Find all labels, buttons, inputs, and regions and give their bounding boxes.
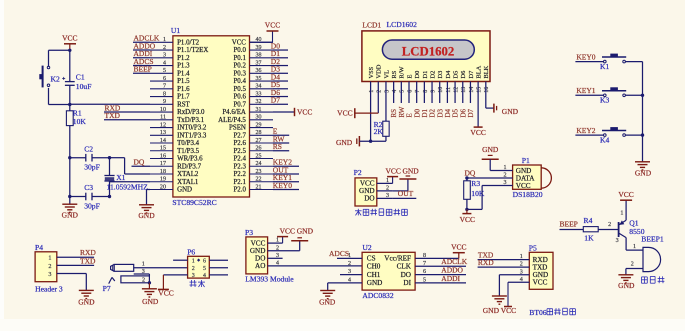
power VCC above P2 pin 1 xyxy=(385,167,400,184)
svg-text:D0: D0 xyxy=(414,71,421,79)
wire Q1 emitter to VCC xyxy=(620,200,626,220)
svg-text:BEEP1: BEEP1 xyxy=(641,234,664,243)
svg-text:DO: DO xyxy=(401,271,411,279)
svg-text:VCC: VCC xyxy=(62,34,77,43)
wire P6 pin 5 stub xyxy=(209,267,228,269)
wire net RW to U1 pin 27 xyxy=(273,134,289,143)
svg-text:3: 3 xyxy=(48,271,51,278)
svg-text:P0.1: P0.1 xyxy=(233,55,246,62)
svg-text:P1.2: P1.2 xyxy=(177,55,190,62)
svg-text:BEEP: BEEP xyxy=(134,65,152,74)
capacitor C2 30pF xyxy=(70,144,110,171)
svg-text:XTAL2: XTAL2 xyxy=(177,171,199,178)
power VCC above P3 pin 1 xyxy=(277,227,295,244)
svg-text:1: 1 xyxy=(620,211,623,217)
svg-text:LCD1602: LCD1602 xyxy=(402,44,455,58)
wire net RXD to P4 pin 1 xyxy=(57,248,97,257)
node LCD VSS ground junction xyxy=(369,140,372,143)
svg-text:BEEP: BEEP xyxy=(560,219,578,228)
wire net KEY0 xyxy=(575,52,603,61)
svg-text:D4: D4 xyxy=(445,70,452,79)
svg-text:STC89C52RC: STC89C52RC xyxy=(172,198,216,207)
svg-text:Header 3: Header 3 xyxy=(35,284,63,293)
svg-text:U2: U2 xyxy=(362,243,371,252)
svg-text:AO: AO xyxy=(255,262,265,270)
svg-text:30: 30 xyxy=(256,115,262,121)
connector P6 switch xyxy=(187,248,209,280)
wire net ADDO to U1 pin 2 xyxy=(133,41,156,50)
connector P3 LM393 module xyxy=(245,228,294,283)
svg-text:VCC: VCC xyxy=(470,128,485,137)
connector P7 sleeve contact xyxy=(121,274,149,284)
svg-text:RD/P3.7: RD/P3.7 xyxy=(177,163,201,170)
node KEY2 rail junction xyxy=(641,133,644,136)
svg-text:13: 13 xyxy=(461,87,467,93)
node DQ R3 junction xyxy=(465,176,468,179)
svg-text:2: 2 xyxy=(377,90,383,93)
wire net D0 at LCD pin 7 xyxy=(413,82,421,118)
wire net D5 at LCD pin 12 xyxy=(452,82,460,118)
svg-text:P1: P1 xyxy=(522,156,530,165)
svg-text:P1.3: P1.3 xyxy=(177,63,190,70)
ground below buzzer xyxy=(618,275,635,290)
svg-text:GND: GND xyxy=(618,281,635,290)
svg-text:1: 1 xyxy=(192,259,195,265)
buzzer BEEP1 xyxy=(641,234,664,271)
node RST junction xyxy=(68,103,71,106)
svg-text:DQ: DQ xyxy=(465,169,476,178)
wire K3 to ground rail xyxy=(626,94,643,96)
svg-text:KEY2: KEY2 xyxy=(576,126,595,135)
svg-text:D1: D1 xyxy=(422,71,429,79)
svg-text:TXD: TXD xyxy=(80,256,96,265)
svg-text:T1/P3.5: T1/P3.5 xyxy=(177,148,200,155)
svg-text:K1: K1 xyxy=(600,62,609,71)
svg-text:2: 2 xyxy=(192,266,195,272)
svg-text:P1.5: P1.5 xyxy=(177,78,190,85)
caption flame sensor module xyxy=(355,209,407,216)
svg-text:GND: GND xyxy=(138,211,155,220)
ground at P3 pin 2 xyxy=(268,227,314,251)
wire net KEY0 to U1 pin 21 xyxy=(273,181,299,190)
svg-text:TXD: TXD xyxy=(105,111,121,120)
wire LCD pin 3 VL to R2 xyxy=(385,82,387,122)
svg-text:2: 2 xyxy=(48,263,51,270)
power VCC left of LCD xyxy=(337,108,378,118)
svg-text:R4: R4 xyxy=(584,216,593,225)
wire net ADCS to U1 pin 4 xyxy=(133,57,154,66)
wire net D5 to U1 pin 34 xyxy=(271,80,288,89)
svg-text:30pF: 30pF xyxy=(84,162,100,171)
ground below R1 xyxy=(62,204,79,219)
svg-text:VCC: VCC xyxy=(516,182,531,190)
svg-text:WR/P3.6: WR/P3.6 xyxy=(177,156,203,163)
svg-text:C1: C1 xyxy=(76,72,85,81)
wire net D1 to U1 pin 38 xyxy=(271,49,288,58)
svg-text:GND: GND xyxy=(482,145,499,154)
wire net BEEP xyxy=(560,219,584,229)
svg-text:CH1: CH1 xyxy=(367,271,381,279)
wire P7 pin 3 switch xyxy=(134,269,150,275)
svg-text:17: 17 xyxy=(160,161,166,167)
svg-text:PSEN: PSEN xyxy=(229,125,246,132)
svg-text:1K: 1K xyxy=(584,233,594,242)
svg-text:KEY1: KEY1 xyxy=(576,86,595,95)
svg-text:R3: R3 xyxy=(471,179,480,188)
svg-text:P5: P5 xyxy=(529,243,537,252)
wire P6 pin 6 stub xyxy=(209,259,228,261)
svg-text:P1.6: P1.6 xyxy=(177,86,190,93)
svg-text:LM393 Module: LM393 Module xyxy=(245,275,294,284)
svg-text:16: 16 xyxy=(160,153,166,159)
svg-text:22: 22 xyxy=(256,177,262,183)
svg-text:4: 4 xyxy=(203,273,206,279)
svg-text:5: 5 xyxy=(163,68,166,74)
svg-text:P2.0: P2.0 xyxy=(233,187,246,194)
wire U2 pin 3 stub xyxy=(340,274,362,276)
wire net RXD to U1 pin 10 xyxy=(104,103,150,112)
LCD module LCD1 LCD1602 xyxy=(362,20,490,93)
svg-text:12: 12 xyxy=(160,122,166,128)
wire net D2 at LCD pin 9 xyxy=(429,82,437,118)
svg-text:BLA: BLA xyxy=(476,65,483,78)
svg-text:P4.6/EA: P4.6/EA xyxy=(222,109,246,116)
svg-text:GND: GND xyxy=(483,306,500,315)
wire net D3 at LCD pin 10 xyxy=(436,82,444,118)
svg-text:KEY0: KEY0 xyxy=(576,52,595,61)
svg-text:R/W: R/W xyxy=(399,65,406,78)
caption switch xyxy=(190,280,206,287)
svg-text:ADC0832: ADC0832 xyxy=(362,291,393,300)
wire net D7 at LCD pin 14 xyxy=(467,82,475,118)
svg-text:P0.7: P0.7 xyxy=(233,101,246,108)
node P7 sleeve junction xyxy=(148,281,151,284)
svg-text:36: 36 xyxy=(256,68,262,74)
svg-text:P1.7: P1.7 xyxy=(177,94,190,101)
svg-text:GND: GND xyxy=(297,227,314,236)
svg-text:RST: RST xyxy=(177,101,190,108)
svg-text:GND: GND xyxy=(62,211,79,220)
svg-text:OUT: OUT xyxy=(398,189,414,198)
node VCC junction xyxy=(68,49,71,52)
wire K1 to ground rail xyxy=(626,61,643,63)
svg-text:XTAL1: XTAL1 xyxy=(177,179,199,186)
wire P6 pin 4 stub xyxy=(209,274,228,276)
wire net KEY1 xyxy=(575,86,603,95)
wire K2 to RST node xyxy=(49,88,70,105)
svg-text:VCC: VCC xyxy=(618,190,633,199)
svg-text:10: 10 xyxy=(438,87,444,93)
ground below U2 pin 4 xyxy=(319,291,336,307)
pushbutton K1 xyxy=(600,54,626,71)
power VCC above Q1 xyxy=(618,190,633,200)
wire P6 pin 1 stub xyxy=(173,259,188,261)
wire R4 to Q1 base xyxy=(598,222,618,230)
svg-text:7: 7 xyxy=(415,90,421,93)
svg-text:ADCS: ADCS xyxy=(329,249,349,258)
svg-text:31: 31 xyxy=(256,107,262,113)
svg-text:RS: RS xyxy=(391,70,398,78)
wire net BEEP to U1 pin 5 xyxy=(133,65,152,74)
wire net D0 to U1 pin 39 xyxy=(271,41,288,50)
wire U2 pin 4 to ground xyxy=(328,283,362,291)
svg-text:VCC: VCC xyxy=(280,227,295,236)
svg-text:15: 15 xyxy=(160,146,166,152)
svg-text:1: 1 xyxy=(142,261,145,267)
wire net RXD to P5 pin 2 xyxy=(478,258,530,267)
svg-text:21: 21 xyxy=(256,184,262,190)
node KEY1 rail junction xyxy=(641,94,644,97)
svg-text:BLK: BLK xyxy=(483,65,490,78)
svg-text:12: 12 xyxy=(453,87,459,93)
svg-text:VCC: VCC xyxy=(297,107,312,116)
wire RST net to U1 pin 9 xyxy=(70,103,150,105)
svg-text:DI: DI xyxy=(403,279,411,287)
wire net TXD to P4 pin 2 xyxy=(57,256,96,265)
wire net ADCS to U2 pin 1 xyxy=(329,249,362,258)
svg-text:P7: P7 xyxy=(103,284,111,293)
wire crystal bottom to XTAL1 pin 19 xyxy=(110,181,151,183)
svg-text:30pF: 30pF xyxy=(84,202,100,211)
svg-text:CH0: CH0 xyxy=(367,263,381,271)
power VCC below LCD pin 15 BLA xyxy=(470,82,485,137)
svg-text:TxD/P3.1: TxD/P3.1 xyxy=(177,117,205,124)
svg-text:P0.6: P0.6 xyxy=(233,94,246,101)
wire net D4 at LCD pin 11 xyxy=(444,82,452,118)
wire U1 pin 20 to ground xyxy=(147,189,151,204)
svg-text:3: 3 xyxy=(163,53,166,59)
svg-text:2: 2 xyxy=(142,278,145,284)
transistor Q1 8550 xyxy=(619,219,645,238)
wire VCC node to K2 xyxy=(49,50,70,67)
wire keys ground rail xyxy=(642,62,644,162)
connector P1 DS18B20 xyxy=(503,156,551,199)
wire net ADCLK to U1 pin 1 xyxy=(133,34,160,43)
svg-text:15: 15 xyxy=(477,87,483,93)
svg-text:8: 8 xyxy=(423,90,429,93)
svg-text:ALE/P4.5: ALE/P4.5 xyxy=(218,117,246,124)
svg-text:2: 2 xyxy=(163,45,166,51)
crystal X1 11.0592MHZ xyxy=(104,158,148,197)
svg-text:DO: DO xyxy=(364,195,374,203)
wire net ADDI at U2 pin 5 xyxy=(415,274,466,283)
wire net E at LCD pin 6 xyxy=(406,82,414,118)
caption bluetooth module xyxy=(547,308,575,315)
wire net ADDO at U2 pin 6 xyxy=(415,266,466,275)
svg-text:24: 24 xyxy=(256,161,262,167)
wire net E to U1 pin 28 xyxy=(273,127,289,136)
wire net KEY1 to U1 pin 22 xyxy=(273,173,299,182)
svg-text:BT06: BT06 xyxy=(529,308,547,317)
svg-text:3: 3 xyxy=(142,269,145,275)
svg-text:2: 2 xyxy=(631,262,634,268)
wire net TXD to P5 pin 1 xyxy=(478,250,530,259)
svg-text:GND: GND xyxy=(336,138,353,147)
ground right of LCD pin 16 BLK xyxy=(486,82,519,117)
svg-text:RXD: RXD xyxy=(478,258,494,267)
svg-text:D2: D2 xyxy=(429,71,436,79)
wire net D2 to U1 pin 37 xyxy=(271,57,288,66)
wire net RS at LCD pin 4 xyxy=(390,82,398,118)
svg-text:K2: K2 xyxy=(51,74,60,83)
power VCC below P6 pin 3 xyxy=(158,275,174,298)
svg-text:RS: RS xyxy=(273,142,282,151)
svg-text:5: 5 xyxy=(400,90,406,93)
wire net KEY2 xyxy=(575,126,603,135)
power VCC above reset circuit xyxy=(62,34,77,51)
svg-text:P1.1/T2EX: P1.1/T2EX xyxy=(177,47,208,54)
svg-text:D5: D5 xyxy=(452,71,459,79)
svg-text:K4: K4 xyxy=(600,136,609,145)
svg-text:4: 4 xyxy=(392,90,398,93)
svg-text:P0.3: P0.3 xyxy=(233,70,246,77)
adc U2 ADC0832 xyxy=(348,243,426,300)
svg-text:19: 19 xyxy=(160,177,166,183)
svg-text:Vcc/REF: Vcc/REF xyxy=(384,255,411,263)
svg-text:P0.4: P0.4 xyxy=(233,78,246,85)
svg-text:11.0592MHZ: 11.0592MHZ xyxy=(107,182,149,191)
resistor R3 10K xyxy=(464,178,485,209)
svg-text:P2: P2 xyxy=(354,168,362,177)
svg-text:4: 4 xyxy=(163,60,166,66)
svg-text:VCC: VCC xyxy=(460,215,475,224)
svg-text:GND: GND xyxy=(367,279,383,287)
svg-text:32: 32 xyxy=(256,99,262,105)
wire net D3 to U1 pin 36 xyxy=(271,65,288,74)
svg-text:9: 9 xyxy=(430,90,436,93)
node crystal top xyxy=(108,156,111,159)
wire net RW at LCD pin 5 xyxy=(398,82,406,118)
svg-text:P2.3: P2.3 xyxy=(233,163,246,170)
wire P7 pin 1 tip to P6 pin 2 xyxy=(134,261,188,267)
svg-text:D7: D7 xyxy=(468,70,475,79)
svg-text:37: 37 xyxy=(256,60,262,66)
svg-text:11: 11 xyxy=(160,115,166,121)
wire net D6 at LCD pin 13 xyxy=(459,82,467,118)
svg-text:P1.0/T2: P1.0/T2 xyxy=(177,40,200,47)
svg-text:VCC: VCC xyxy=(533,279,548,287)
svg-text:VCC: VCC xyxy=(337,109,352,118)
svg-text:P2.5: P2.5 xyxy=(233,148,246,155)
wire net D6 to U1 pin 33 xyxy=(271,88,288,97)
svg-text:8: 8 xyxy=(163,91,166,97)
svg-text:10K: 10K xyxy=(471,189,485,198)
node R3 VCC junction xyxy=(465,208,468,211)
wire net OUT to U1 pin 23 xyxy=(273,165,299,174)
svg-text:DS18B20: DS18B20 xyxy=(513,190,543,199)
svg-text:6: 6 xyxy=(407,90,413,93)
wire K4 to ground rail xyxy=(626,134,643,136)
svg-text:INT0/P3.2: INT0/P3.2 xyxy=(177,125,207,132)
svg-text:10: 10 xyxy=(160,107,166,113)
connector P2 flame sensor module xyxy=(354,168,393,206)
svg-text:R1: R1 xyxy=(73,108,82,117)
pushbutton K3 xyxy=(600,87,626,104)
svg-text:VCC: VCC xyxy=(232,40,247,47)
wire P4 pin 3 to ground xyxy=(57,274,87,291)
svg-text:3: 3 xyxy=(384,90,390,93)
wire net RS to U1 pin 26 xyxy=(273,142,289,151)
svg-text:C3: C3 xyxy=(84,183,93,192)
connector P4 Header 3 xyxy=(35,243,63,293)
svg-text:KEY0: KEY0 xyxy=(273,181,292,190)
svg-text:5: 5 xyxy=(203,266,206,272)
svg-text:10uF: 10uF xyxy=(76,82,92,91)
svg-text:38: 38 xyxy=(256,53,262,59)
svg-text:VCC: VCC xyxy=(265,21,280,30)
svg-text:INT1/P3.3: INT1/P3.3 xyxy=(177,132,207,139)
svg-text:14: 14 xyxy=(160,138,166,144)
pushbutton K4 xyxy=(600,127,626,144)
power VCC below R3 xyxy=(460,209,475,223)
wire net DQ to P1 pin 2 DATA xyxy=(465,169,513,178)
svg-text:6: 6 xyxy=(163,76,166,82)
svg-text:29: 29 xyxy=(256,122,262,128)
svg-text:VCC: VCC xyxy=(158,289,173,298)
svg-text:26: 26 xyxy=(256,146,262,152)
capacitor C3 30pF xyxy=(70,183,110,210)
svg-text:2: 2 xyxy=(348,261,351,267)
svg-text:P1.4: P1.4 xyxy=(177,70,190,77)
svg-text:27: 27 xyxy=(256,138,262,144)
svg-text:LCD1: LCD1 xyxy=(362,21,381,30)
svg-text:1: 1 xyxy=(633,244,636,250)
svg-text:CS: CS xyxy=(367,255,376,263)
resistor R2 2K xyxy=(374,120,390,141)
ground below P7 xyxy=(142,289,159,306)
svg-text:2K: 2K xyxy=(374,127,384,136)
wire net OUT at P2 pin 3 xyxy=(393,189,417,198)
resistor R4 1K xyxy=(583,216,598,242)
ground below P5 pin 3 xyxy=(483,296,507,315)
svg-text:1: 1 xyxy=(163,37,166,43)
svg-text:P4: P4 xyxy=(35,243,43,252)
svg-text:GND: GND xyxy=(502,107,519,116)
power VCC at U2 pin 8 xyxy=(415,243,466,259)
svg-text:9: 9 xyxy=(163,99,166,105)
ground left of LCD xyxy=(336,136,386,147)
svg-text:RxD/P3.0: RxD/P3.0 xyxy=(177,109,205,116)
node C3 tap xyxy=(68,195,71,198)
svg-text:K3: K3 xyxy=(600,96,609,105)
svg-text:P0.0: P0.0 xyxy=(233,47,246,54)
svg-text:VCC: VCC xyxy=(385,167,400,176)
wire P1 pin 3 to VCC node xyxy=(467,186,513,210)
svg-text:P3: P3 xyxy=(245,228,253,237)
svg-text:VSS: VSS xyxy=(368,66,375,78)
svg-text:P2.2: P2.2 xyxy=(233,171,246,178)
wire P5 pin 3 to ground xyxy=(499,275,529,296)
svg-text:16: 16 xyxy=(484,87,490,93)
svg-text:23: 23 xyxy=(256,169,262,175)
svg-text:X1: X1 xyxy=(116,173,125,182)
svg-text:34: 34 xyxy=(256,84,262,90)
wire net ADCLK at U2 pin 7 xyxy=(415,257,468,266)
svg-text:25: 25 xyxy=(256,153,262,159)
svg-text:CLK: CLK xyxy=(397,263,412,271)
power VCC at U1 pin 40 xyxy=(250,21,281,43)
wire P6 pin 3 to VCC xyxy=(163,274,187,276)
svg-text:7: 7 xyxy=(163,84,166,90)
svg-text:VCC: VCC xyxy=(501,306,516,315)
svg-text:3: 3 xyxy=(616,238,619,244)
svg-text:35: 35 xyxy=(256,76,262,82)
wire net D4 to U1 pin 35 xyxy=(271,72,288,81)
svg-text:D7: D7 xyxy=(271,96,280,105)
wire P7 sleeve to ground xyxy=(148,283,150,289)
svg-text:11: 11 xyxy=(446,87,452,93)
svg-text:P2.1: P2.1 xyxy=(233,179,246,186)
